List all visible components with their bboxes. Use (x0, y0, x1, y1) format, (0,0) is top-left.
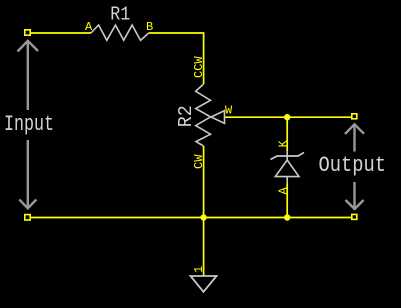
svg-text:CCW: CCW (192, 56, 206, 78)
terminal input bottom (25, 215, 30, 220)
junction dot bottom center (200, 214, 206, 220)
ground symbol (191, 276, 217, 292)
wiper arrow of R2 (211, 111, 225, 124)
svg-text:Output: Output (319, 153, 387, 178)
svg-text:B: B (146, 20, 153, 34)
wire from R2 bottom down through junction to ground (203, 146, 205, 276)
potentiometer R2 zigzag (196, 84, 211, 146)
output up arrow (345, 124, 364, 151)
input down arrow (19, 140, 36, 208)
svg-text:1: 1 (192, 266, 206, 273)
input up arrow (18, 41, 39, 110)
svg-text:A: A (85, 20, 93, 34)
zener stem bottom (286, 177, 288, 184)
zener cathode bar with bent tails (271, 153, 305, 160)
svg-text:R1: R1 (110, 4, 130, 26)
terminal output bottom (352, 214, 357, 219)
svg-text:W: W (225, 104, 233, 118)
terminal output top (352, 114, 357, 119)
zener diode D1 stem top (286, 151, 288, 161)
junction dot bottom zener (284, 214, 290, 220)
wire zener bottom (286, 184, 288, 218)
wire zener top (286, 117, 288, 151)
output down arrow (346, 182, 364, 209)
svg-text:CW: CW (192, 154, 206, 169)
svg-text:A: A (277, 187, 291, 195)
terminal input top (25, 30, 30, 35)
wire top from input terminal to R1 (30, 32, 91, 34)
svg-text:K: K (277, 140, 291, 148)
svg-text:R2: R2 (175, 105, 197, 127)
svg-text:Input: Input (4, 112, 54, 137)
resistor R1 zigzag (91, 25, 149, 40)
zener triangle (275, 160, 299, 177)
junction dot wiper/zener (284, 114, 290, 120)
wire bottom rail (30, 217, 352, 219)
wire from R1 to corner and down to R2 (149, 33, 204, 84)
wire wiper to output terminal (225, 116, 352, 118)
